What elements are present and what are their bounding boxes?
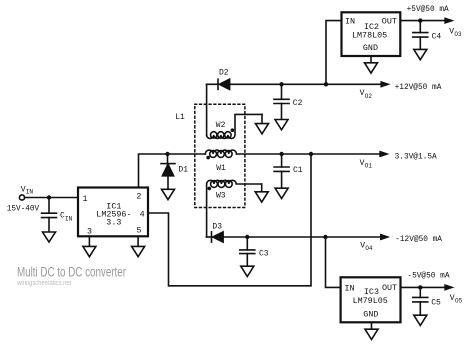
W2 label: [216, 121, 226, 130]
node feedback on 3.3V rail: [309, 152, 313, 156]
IC1 LM2596-3.3 box: [78, 188, 148, 237]
svg-text:IN: IN: [26, 189, 34, 196]
D2 label: [219, 68, 229, 77]
+5V output arrow: [444, 17, 454, 24]
IC3 name label: [364, 287, 379, 297]
capacitor C5: [413, 287, 428, 315]
svg-text:5: 5: [136, 226, 141, 236]
wire +12V rail up to IC2 IN: [326, 21, 342, 85]
svg-text:IN: IN: [65, 215, 73, 222]
svg-text:+12V@50 mA: +12V@50 mA: [395, 84, 442, 92]
-12V output arrow: [380, 234, 390, 241]
C3 label: [259, 249, 269, 258]
wire VIN to IC1 pin1: [25, 197, 78, 199]
W3 label: [216, 192, 226, 201]
svg-text:D3: D3: [212, 223, 222, 232]
IC1 pin 3 label: [87, 226, 92, 236]
svg-text:2: 2: [136, 191, 141, 201]
svg-text:GND: GND: [363, 309, 378, 319]
-12V rail from D3 anode to arrow: [223, 236, 380, 238]
svg-text:L1: L1: [175, 113, 185, 122]
IC2 name label: [364, 22, 379, 32]
-5V output arrow: [444, 284, 454, 291]
ground for C4: [414, 49, 427, 59]
svg-text:Multi DC to DC converter: Multi DC to DC converter: [17, 265, 126, 280]
svg-text:-5V@50 mA: -5V@50 mA: [407, 272, 449, 280]
ground for IC2: [365, 63, 378, 73]
svg-text:O1: O1: [365, 163, 373, 170]
svg-text:W1: W1: [216, 164, 226, 173]
svg-text:IN: IN: [345, 283, 355, 293]
C4 label: [432, 32, 442, 41]
IC2 OUT pin label: [382, 16, 397, 26]
wire IC1 pin2 up to 3.3V rail: [139, 154, 168, 188]
svg-text:OUT: OUT: [382, 283, 397, 293]
svg-text:LM78L05: LM78L05: [352, 30, 387, 40]
ground for IC3: [365, 329, 378, 339]
ground for D1: [162, 189, 175, 199]
VO3 label: [449, 28, 462, 39]
wire -12V rail down to IC3 IN: [326, 237, 341, 287]
L1 label: [175, 113, 185, 122]
IC1 name label: [106, 202, 121, 212]
wire D2 branch: vertical from +12V wire down to W2: [206, 84, 208, 135]
svg-text:3.3V@1.5A: 3.3V@1.5A: [395, 154, 437, 162]
D1 label: [178, 165, 188, 174]
ground for C2: [275, 120, 288, 130]
svg-text:1: 1: [83, 194, 88, 204]
IC2 value label LM78L05: [352, 30, 387, 40]
node IC2-IN on +12V rail: [324, 82, 328, 86]
svg-text:-12V@50 mA: -12V@50 mA: [395, 236, 442, 244]
3.3V output arrow: [379, 151, 389, 158]
IC1 pin 5 label: [136, 226, 141, 236]
IC1 value label LM2596-3.3: [96, 210, 131, 228]
winding W1 (series on 3.3V rail): [205, 150, 236, 157]
svg-text:C2: C2: [293, 99, 303, 108]
svg-text:C1: C1: [293, 166, 303, 175]
svg-text:D1: D1: [178, 165, 188, 174]
-5V@50 mA label: [407, 272, 449, 280]
C2 label: [293, 99, 303, 108]
svg-text:15V-40V: 15V-40V: [7, 205, 40, 213]
D3 label: [212, 223, 222, 232]
IC1 pin 4 label: [140, 210, 145, 220]
3.3V rail from D1 node through W1 to arrow: [168, 153, 206, 155]
wire IC1 pin5 to ground: [137, 236, 139, 246]
node C3 on -12V rail: [245, 235, 249, 239]
wire IC1 pin3 to ground: [88, 236, 90, 246]
3.3V rail right section to arrow: [237, 153, 380, 155]
IC2 LM78L05 box: [342, 12, 401, 56]
title Multi DC to DC converter: [17, 265, 126, 280]
VO5 label: [450, 294, 463, 305]
capacitor C3: [240, 237, 255, 266]
svg-text:C4: C4: [432, 32, 442, 41]
svg-text:C5: C5: [431, 299, 441, 308]
svg-text:O4: O4: [365, 245, 373, 252]
ground for W2: [256, 124, 269, 134]
VO4 label: [360, 241, 373, 252]
capacitor CIN: [42, 198, 57, 233]
wire IC3 OUT to -5V arrow: [401, 286, 445, 288]
ground for CIN: [43, 232, 56, 242]
svg-text:W3: W3: [216, 192, 226, 201]
node at D1: [165, 152, 169, 156]
svg-text:C3: C3: [259, 249, 269, 258]
IC2 GND pin label: [363, 43, 378, 53]
winding W3 (loops, left terminal down to D3): [207, 180, 262, 237]
VO2 label: [360, 89, 373, 100]
winding W2 (loops below, terminals up): [207, 114, 262, 138]
IC3 value label LM79L05: [353, 296, 388, 306]
node C1 on 3.3V rail: [279, 152, 283, 156]
node C4 on +5V rail: [418, 18, 422, 22]
svg-text:D2: D2: [219, 68, 229, 77]
diode D2 (anode right, cathode left): [206, 79, 229, 89]
svg-text:LM79L05: LM79L05: [353, 296, 388, 306]
IC3 LM79L05 box: [341, 277, 401, 322]
W1 label: [216, 164, 226, 173]
diode D3 (anode right, cathode left): [206, 232, 223, 242]
IC2 IN pin label: [345, 16, 355, 26]
C5 label: [431, 299, 441, 308]
svg-text:GND: GND: [363, 43, 378, 53]
IC1 pin 1 label: [83, 194, 88, 204]
svg-text:O2: O2: [365, 93, 373, 100]
15V-40V label: [7, 205, 40, 213]
capacitor C1: [274, 154, 289, 188]
node at CIN junction: [47, 195, 51, 199]
wire W3 right to ground: [261, 184, 263, 192]
ground for C5: [414, 315, 427, 325]
svg-text:3.3: 3.3: [106, 217, 121, 227]
wire W2 right to ground: [261, 114, 263, 123]
3.3V@1.5A label: [395, 154, 437, 162]
+5V@50 mA label: [407, 6, 449, 14]
diode D1 (catch diode, cathode up): [161, 154, 175, 189]
node IC3 feed on -12V rail: [323, 235, 327, 239]
svg-text:+5V@50 mA: +5V@50 mA: [407, 6, 449, 14]
svg-text:wiringschematics.net: wiringschematics.net: [16, 280, 71, 287]
svg-text:3: 3: [87, 226, 92, 236]
svg-text:W2: W2: [216, 121, 226, 130]
W3 phase dot: [208, 187, 212, 191]
wire IC3 GND down: [371, 322, 373, 329]
CIN label: [60, 212, 73, 223]
ground for IC1 pin3: [83, 246, 96, 256]
transformer L1 dashed box: [195, 104, 245, 207]
+12V output arrow: [380, 81, 390, 88]
C1 label: [293, 166, 303, 175]
input terminal VIN open circle: [19, 195, 24, 200]
svg-text:OUT: OUT: [382, 16, 397, 26]
ground for C3: [241, 266, 254, 276]
IC3 GND pin label: [363, 309, 378, 319]
+12V rail from D2 anode to arrow: [230, 83, 381, 85]
+12V@50 mA label: [395, 84, 442, 92]
node C2 on +12V rail: [279, 82, 283, 86]
IC3 IN pin label: [345, 283, 355, 293]
-12V@50 mA label: [395, 236, 442, 244]
ground for W3: [255, 192, 268, 202]
watermark wiringschematics.net: [16, 280, 71, 287]
capacitor C4: [413, 21, 428, 50]
IC1 pin 2 label: [136, 191, 141, 201]
wire IC1 pin4 feedback loop: [148, 154, 311, 286]
W2 phase dot: [231, 128, 235, 132]
node C5 on -5V rail: [418, 285, 422, 289]
wire IC2 GND down: [370, 56, 372, 63]
ground for C1: [275, 188, 288, 198]
capacitor C2: [274, 84, 289, 119]
wire IC2 OUT to +5V arrow: [400, 20, 444, 22]
svg-text:O5: O5: [455, 297, 463, 304]
VIN label: [21, 186, 34, 196]
IC3 OUT pin label: [382, 283, 397, 293]
svg-text:O3: O3: [454, 31, 462, 38]
VO1 label: [360, 159, 373, 170]
ground for IC1 pin5: [132, 246, 145, 256]
W1 phase dot: [206, 156, 210, 160]
svg-text:4: 4: [140, 210, 145, 220]
svg-text:IN: IN: [345, 16, 355, 26]
